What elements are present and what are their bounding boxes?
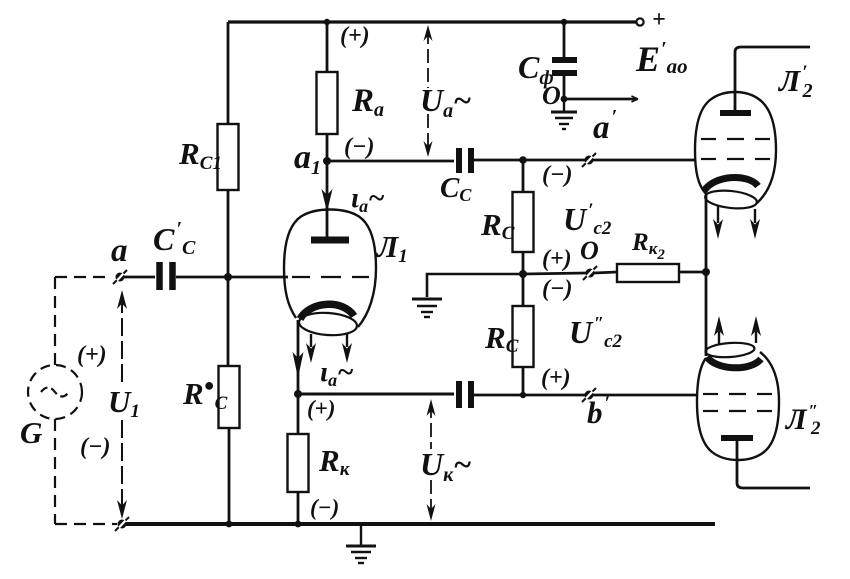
node cathode L1 — [294, 390, 302, 398]
svg-text:b′: b′ — [587, 393, 610, 430]
wire terminal to Rk2 — [594, 272, 617, 273]
wire a1 to Cc — [327, 160, 454, 163]
tube L1 anode bar — [311, 237, 349, 244]
wire mid node to terminal O — [523, 273, 586, 274]
node junction Ra top — [324, 19, 330, 25]
tube L1 bottom ellipse — [298, 311, 357, 337]
tube L2'' anode lead — [737, 438, 810, 488]
wire C'c to tube L1 grid — [176, 276, 288, 279]
wire Cc to Rc top node — [474, 159, 586, 162]
tube L1 anode lead with current arrow — [326, 161, 329, 237]
tube L2' anode lead — [735, 47, 810, 113]
generator G dashed circle — [28, 365, 82, 419]
wire Cc2 to Rc bottom node — [474, 394, 586, 397]
tube L2'' anode bar — [721, 435, 753, 441]
node Rk bottom — [295, 521, 302, 528]
svg-text:Rк: Rк — [318, 443, 351, 480]
resistor Ra — [317, 72, 338, 134]
wire Rk2 to cathode line — [679, 271, 706, 274]
terminal +Ea supply open circle — [636, 18, 643, 25]
svg-text:CC: CC — [440, 172, 472, 205]
tube L1 cathode lead with arrow — [297, 320, 300, 394]
svg-text:E′ao: E′ao — [635, 38, 688, 79]
tube L2' filament arrows — [717, 206, 719, 223]
svg-text:(−): (−) — [80, 434, 111, 460]
svg-text:U′c2: U′c2 — [563, 200, 612, 239]
ground middle — [412, 299, 442, 317]
tube L1 filament arrows — [310, 334, 312, 347]
svg-text:a: a — [111, 233, 128, 269]
resistor Rk2 — [617, 264, 679, 282]
divider chain: node top — [519, 156, 527, 164]
svg-text:Uк~: Uк~ — [420, 446, 471, 486]
svg-text:(−): (−) — [542, 276, 573, 302]
svg-text:O: O — [542, 81, 561, 110]
svg-text:C′C: C′C — [153, 218, 196, 259]
tube L2'' grid dashes row2 — [703, 410, 772, 412]
wire mid node to ground left — [427, 274, 523, 297]
wire to Rc upper — [522, 160, 525, 192]
tube L2' envelope — [695, 92, 776, 203]
dashed source box — [55, 277, 117, 524]
node cathode join — [702, 268, 710, 276]
svg-text:U″c2: U″c2 — [569, 313, 622, 352]
dimension arrow Ua~ — [424, 25, 433, 157]
dimension arrow Uk~ — [427, 399, 436, 521]
dimension arrow U1 — [117, 290, 127, 519]
svg-text:(+): (+) — [340, 23, 370, 49]
svg-text:(−): (−) — [344, 134, 375, 160]
ground bottom — [346, 524, 376, 563]
wire b' to tube L2'' grid — [593, 394, 697, 397]
svg-text:G: G — [20, 415, 43, 450]
terminal a — [113, 270, 127, 284]
svg-text:RC1: RC1 — [178, 136, 222, 174]
resistor Rc upper — [513, 192, 534, 252]
capacitor Cf — [552, 22, 577, 99]
svg-text:a1: a1 — [294, 139, 321, 179]
generator tilde — [41, 388, 69, 397]
wire cathode vertical — [705, 195, 708, 356]
wire cathode node to Cc2 — [298, 393, 454, 396]
wire left vertical Rc1 branch upper — [227, 22, 230, 124]
tube L2' bottom ellipse — [704, 188, 757, 210]
wire top bus — [228, 20, 637, 23]
node divider bottom — [520, 392, 526, 398]
tube L2' grid dashes row1 — [701, 138, 770, 140]
tube L2' cathode arc — [704, 177, 758, 191]
wire mid node to Rc lower — [522, 274, 525, 306]
resistor RC1 — [218, 124, 239, 190]
svg-text:Ra: Ra — [351, 83, 384, 121]
tube L1 grid dashes — [292, 276, 369, 278]
svg-text:U1: U1 — [108, 384, 140, 422]
wire grid L1 from node a — [124, 276, 155, 279]
svg-text:(+): (+) — [307, 396, 335, 421]
resistor Rc lower divider — [513, 306, 534, 367]
terminal a' — [582, 153, 596, 167]
ground below Cf — [551, 99, 577, 129]
svg-text:ιa~: ιa~ — [320, 356, 354, 390]
svg-text:Л1: Л1 — [375, 229, 408, 267]
svg-text:(−): (−) — [542, 162, 573, 188]
svg-text:O: O — [580, 236, 599, 265]
svg-text:(−): (−) — [310, 495, 339, 520]
tube L2'' cathode arc — [707, 357, 761, 368]
resistor RC lower — [219, 366, 240, 428]
terminal O — [583, 266, 597, 280]
wire Ra to node a1 — [326, 134, 329, 161]
tube L1 cathode arc — [300, 304, 354, 319]
svg-text:+: + — [652, 7, 666, 33]
svg-text:Л′2: Л′2 — [777, 62, 813, 102]
svg-text:Rк2: Rк2 — [631, 229, 665, 263]
node junction Cf top — [561, 19, 567, 25]
wire Rc upper to mid node — [522, 252, 525, 274]
wire RC1 to grid node — [227, 190, 230, 366]
svg-text:RC: RC — [480, 207, 515, 244]
tube L2' grid dashes row2 — [701, 158, 770, 160]
svg-text:Л″2: Л″2 — [784, 401, 821, 439]
capacitor Cc lower — [456, 381, 462, 408]
svg-text:(+): (+) — [542, 246, 572, 272]
tube L2'' filament arrows up — [718, 331, 720, 345]
svg-text:a′: a′ — [593, 106, 617, 146]
svg-text:(+): (+) — [77, 342, 107, 368]
tube L2' anode bar — [720, 110, 751, 116]
wire from O node to right — [564, 98, 637, 101]
wire Ra branch — [326, 22, 329, 72]
node grid wire x228 — [224, 273, 232, 281]
capacitor C'c — [156, 262, 163, 290]
tube L2'' grid dashes row1 — [703, 393, 772, 395]
svg-text:ιa~: ιa~ — [351, 182, 385, 216]
node RC bottom — [226, 521, 233, 528]
resistor Rk — [297, 394, 300, 434]
node a1 — [323, 157, 331, 165]
wire a' to tube L2' grid — [593, 159, 695, 162]
terminal b' — [582, 388, 596, 402]
tube L2'' envelope — [697, 352, 779, 460]
capacitor Cc upper — [456, 148, 462, 173]
wire Rc lower to bottom node — [522, 367, 525, 395]
svg-text:Ua~: Ua~ — [420, 82, 471, 122]
wire RC to bottom bus — [228, 428, 231, 524]
tube L2'' top ellipse — [705, 341, 755, 358]
node O below Cf — [561, 96, 568, 103]
svg-text:(+): (+) — [541, 365, 571, 391]
node mid divider — [519, 270, 527, 278]
tube L1 envelope — [284, 210, 376, 328]
bottom bus — [118, 522, 715, 526]
terminal bottom left — [115, 517, 129, 531]
